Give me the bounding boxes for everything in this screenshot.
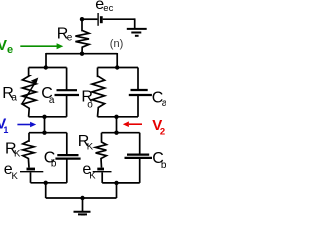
resistor R_e xyxy=(75,19,89,54)
arrow V_e xyxy=(20,45,57,47)
ground bottom line1 xyxy=(74,211,91,213)
capacitor C_b left bottom plate xyxy=(55,158,80,160)
svg-text:a: a xyxy=(11,92,17,103)
resistor R_a xyxy=(22,68,36,117)
capacitor C_b right bottom plate xyxy=(125,157,153,159)
junction dot left link bottom xyxy=(42,131,46,135)
svg-text:K: K xyxy=(87,141,94,152)
lower-right cell top bar xyxy=(102,132,140,134)
battery e_K right thick plate xyxy=(97,168,104,171)
junction dot left link top xyxy=(42,115,46,119)
capacitor C_b left top plate xyxy=(57,154,78,156)
resistor R_K left xyxy=(23,133,34,168)
junction dot upper-left cell top xyxy=(44,65,48,69)
wire battery to ground corner xyxy=(103,18,135,20)
capacitor C_a right bottom plate xyxy=(129,94,152,96)
junction dot right link bottom xyxy=(114,131,118,135)
node n wire xyxy=(46,53,117,55)
wire top: R_e corner to battery xyxy=(82,18,98,20)
wire lower-right cell to bottom wire xyxy=(116,183,118,198)
left link wire xyxy=(44,117,46,133)
capacitor C_a right top plate xyxy=(131,89,148,91)
bottom wire xyxy=(46,197,117,199)
junction dot lower-left bar xyxy=(44,181,48,185)
junction dot upper-right cell top xyxy=(115,65,119,69)
capacitor C_b right bottom lead xyxy=(139,158,141,183)
capacitor C_a left top lead xyxy=(66,68,68,91)
svg-text:b: b xyxy=(51,158,57,169)
battery e_K right bottom lead xyxy=(101,172,103,183)
junction dot right link top xyxy=(114,115,118,119)
capacitor C_a left bottom lead xyxy=(66,95,68,117)
battery e_ec thick negative plate xyxy=(100,16,103,23)
capacitor C_b right top lead xyxy=(139,133,141,155)
capacitor C_b left top lead xyxy=(66,133,68,155)
capacitor C_a right top lead xyxy=(137,68,139,91)
svg-text:2: 2 xyxy=(160,126,165,137)
wire lower-left cell to bottom wire xyxy=(45,183,47,198)
upper-left cell top bar xyxy=(29,67,67,69)
ground top line3 xyxy=(135,35,139,37)
junction dot R_e top xyxy=(80,17,84,21)
battery e_ec thin positive plate xyxy=(97,13,99,26)
battery e_K left bottom lead xyxy=(30,172,32,182)
svg-text:a: a xyxy=(49,95,55,106)
svg-text:K: K xyxy=(89,171,96,182)
junction dot bottom ground tap xyxy=(80,196,84,200)
upper-left cell bottom bar xyxy=(29,116,67,118)
wire node to upper-right cell xyxy=(116,53,118,68)
lower-left cell top bar xyxy=(29,132,67,134)
svg-text:ec: ec xyxy=(103,3,113,14)
svg-text:e: e xyxy=(7,44,13,56)
capacitor C_a right bottom lead xyxy=(137,95,139,117)
capacitor C_b right top plate xyxy=(127,154,149,156)
svg-text:o: o xyxy=(87,100,93,111)
ground top line2 xyxy=(131,32,141,34)
resistor R_K right xyxy=(96,133,107,168)
ground bottom line2 xyxy=(78,213,87,215)
arrow on R_a (variable) xyxy=(22,84,35,105)
svg-text:K: K xyxy=(14,149,21,160)
upper-right cell bottom bar xyxy=(98,116,139,118)
battery e_K right thin plate xyxy=(93,171,112,173)
battery e_K left thin plate xyxy=(20,171,43,173)
arrow V_1 xyxy=(17,124,31,126)
capacitor C_a left top plate xyxy=(57,89,78,91)
svg-text:V: V xyxy=(0,37,7,54)
wire node to upper-left cell xyxy=(45,53,47,68)
arrow V_2 xyxy=(129,123,142,125)
junction dot R_e bottom xyxy=(80,52,84,56)
battery e_K left thick plate xyxy=(27,168,36,171)
ground top line1 xyxy=(127,28,147,30)
resistor R_o xyxy=(92,68,105,117)
svg-text:1: 1 xyxy=(3,125,8,135)
wire down to bottom ground xyxy=(82,198,84,211)
junction dot lower-right bar xyxy=(114,181,118,185)
svg-text:K: K xyxy=(12,171,19,182)
capacitor C_a left bottom plate xyxy=(55,94,80,96)
wire down into top ground xyxy=(134,18,136,28)
svg-text:b: b xyxy=(161,160,166,171)
ground bottom line3 xyxy=(81,216,85,218)
svg-text:a: a xyxy=(162,98,166,109)
svg-text:(n): (n) xyxy=(110,38,123,50)
lower-left cell bottom bar xyxy=(31,182,67,184)
capacitor C_b left bottom lead xyxy=(66,159,68,183)
right link wire xyxy=(116,117,118,133)
upper-right cell top bar xyxy=(98,67,139,69)
lower-right cell bottom bar xyxy=(102,182,140,184)
svg-text:e: e xyxy=(67,32,73,43)
